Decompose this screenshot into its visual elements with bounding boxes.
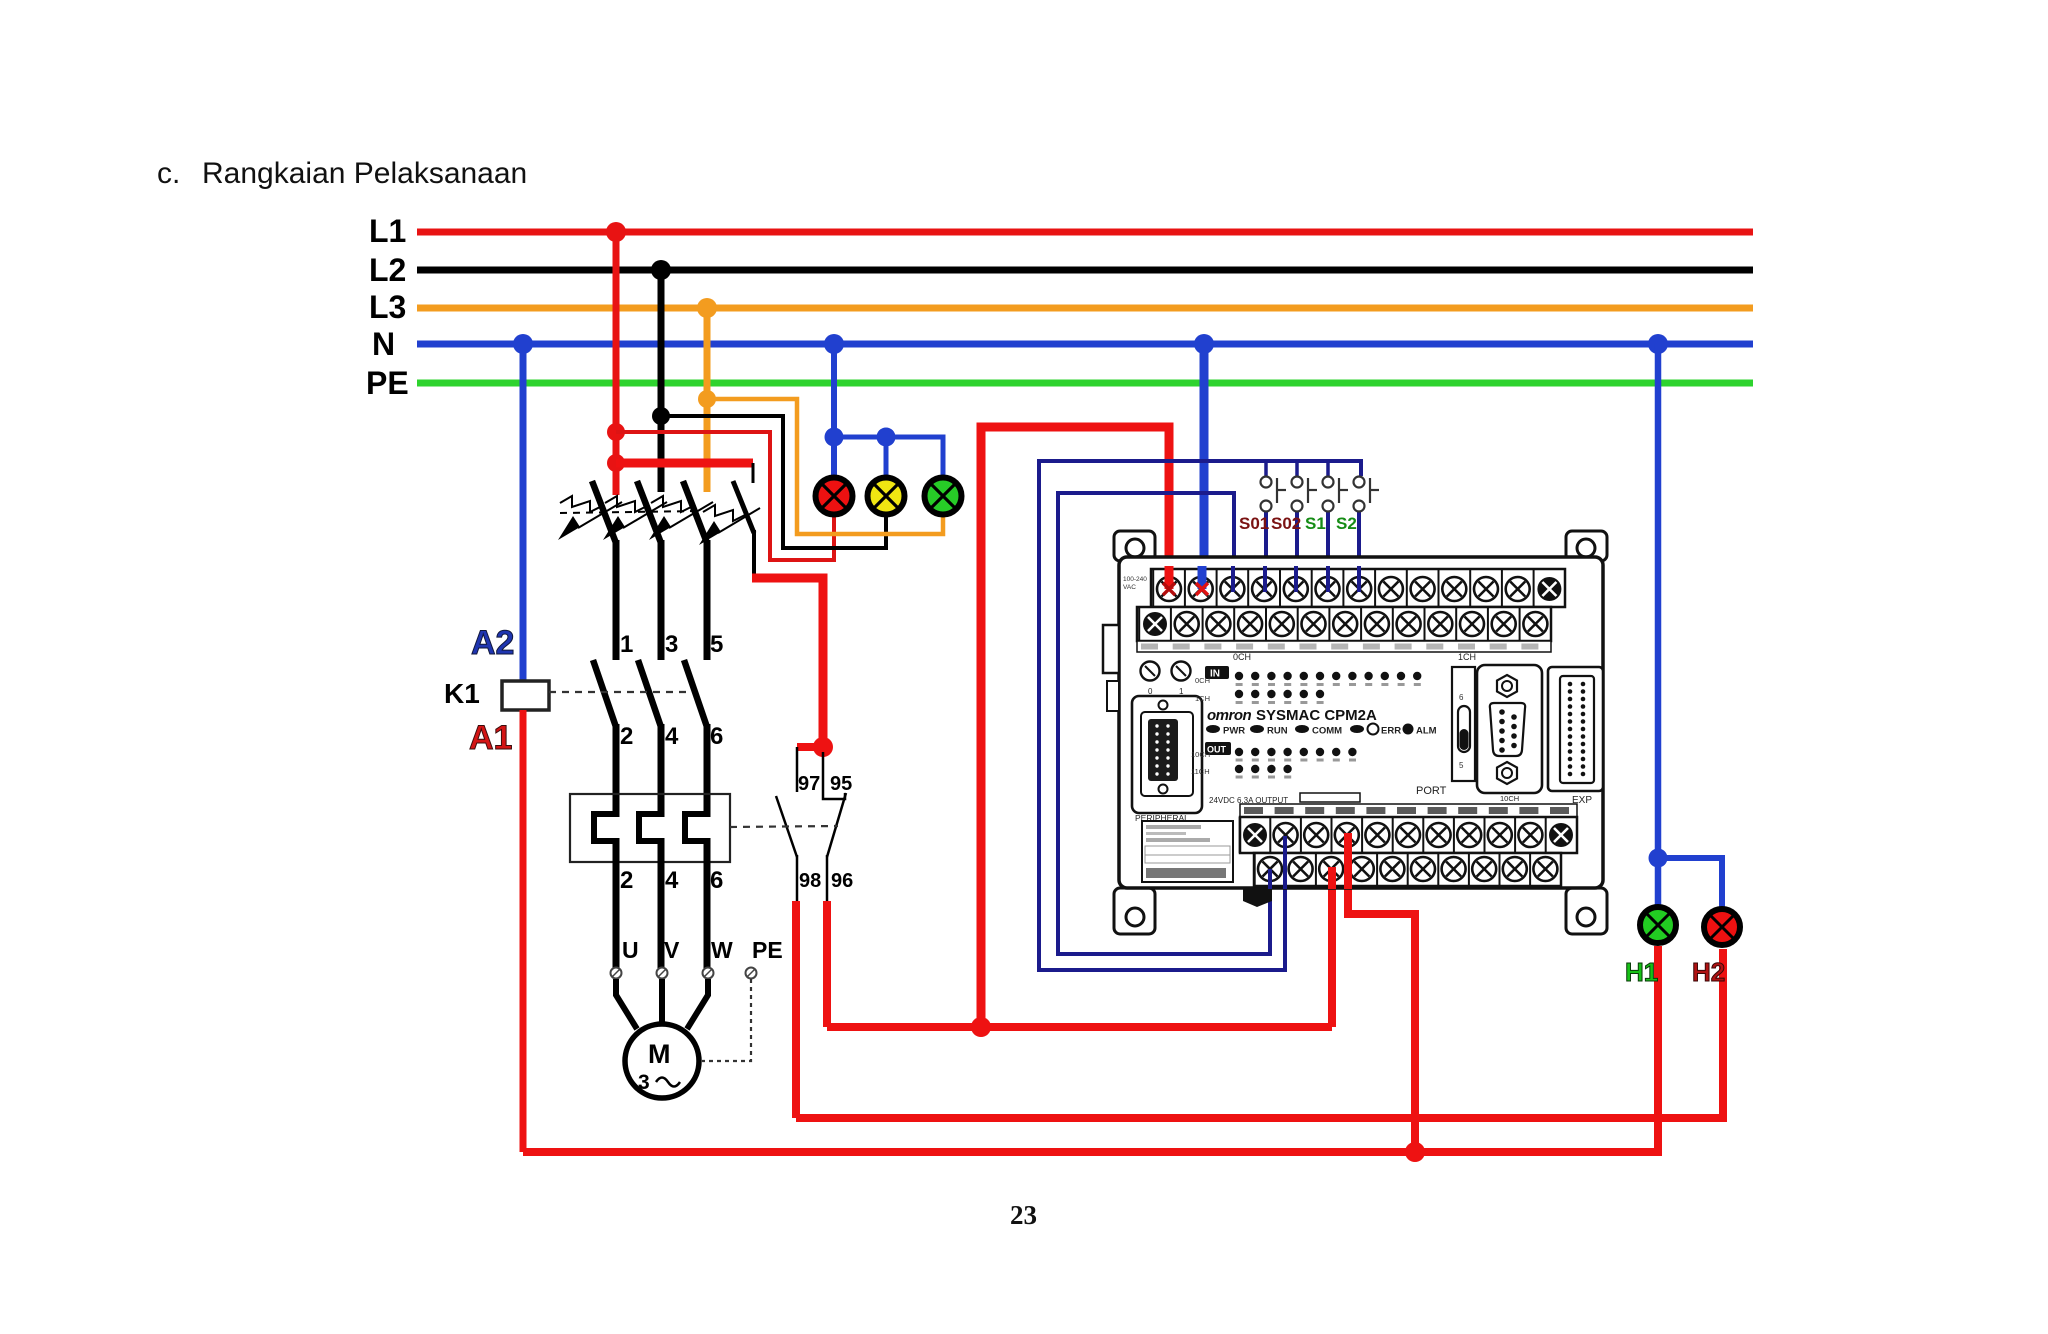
- label 97: [798, 773, 820, 795]
- label 5: [710, 631, 723, 658]
- svg-text:U: U: [622, 937, 639, 963]
- svg-text:S01: S01: [1239, 514, 1269, 533]
- PLC IN indicator block: [1195, 666, 1421, 704]
- PLC trim potentiometers: [1141, 662, 1191, 697]
- node red tap for control MCB at (616,463): [607, 454, 625, 472]
- wire thick red F2 out to overload aux: [752, 578, 823, 750]
- svg-text:4: 4: [665, 867, 679, 894]
- svg-text:COMM: COMM: [1312, 726, 1342, 737]
- label PERIPHERAL: [1135, 813, 1189, 823]
- svg-text:M: M: [648, 1039, 671, 1069]
- label omron SYSMAC CPM2A: [1207, 707, 1377, 724]
- svg-text:3: 3: [665, 631, 678, 658]
- svg-text:L1: L1: [369, 213, 406, 249]
- wire PE rail: [417, 380, 1753, 387]
- svg-text:A2: A2: [471, 624, 514, 662]
- overload relay F1 heater 1: [594, 814, 616, 968]
- svg-text:N: N: [372, 326, 395, 362]
- wire navy stub to S02 top: [1295, 461, 1299, 476]
- PLC bottom terminal label strip: [1209, 793, 1577, 817]
- rail label L3: [369, 289, 406, 325]
- label S01: [1239, 514, 1269, 533]
- label 6 bottom: [710, 867, 723, 894]
- wire navy outer loop (24V common to switches): [1039, 461, 1361, 970]
- wire red PLC output to jog right: [1348, 835, 1415, 1152]
- label V: [664, 937, 680, 963]
- overload aux contact 97-98 (NO): [776, 747, 797, 901]
- wire navy S01 bottom to PLC input: [1264, 511, 1268, 590]
- PLC peripheral port connector: [1132, 696, 1202, 813]
- contactor K1 pole 2: [638, 660, 661, 817]
- node blue junction at (834,437): [825, 428, 844, 447]
- overload relay F1 heater 2: [639, 814, 661, 968]
- wire N drop to K1 coil A2: [520, 344, 527, 682]
- PLC rating info box: [1142, 821, 1233, 882]
- label U: [622, 937, 639, 963]
- node blue junction at (886,437): [877, 428, 896, 447]
- svg-text:23: 23: [1010, 1200, 1037, 1230]
- node N junction at x1204: [1194, 334, 1214, 354]
- contactor K1 coil: [502, 681, 549, 710]
- wire thick red control feed L1 to MCB F2: [616, 459, 753, 468]
- overload relay F1 heater 3: [685, 814, 707, 968]
- wire L3 rail: [417, 305, 1753, 312]
- label A2: [471, 624, 514, 662]
- wire navy stub to S01 top: [1264, 461, 1268, 476]
- overload aux contact 95-96 (NC): [823, 752, 846, 901]
- PLC comm switch: [1452, 667, 1475, 781]
- label 6 top: [710, 723, 723, 750]
- wire red stub to 97: [797, 743, 823, 751]
- terminal W: [703, 968, 714, 979]
- svg-text:96: 96: [831, 870, 853, 892]
- wire red termination at bottom COM terminal row2: [1328, 867, 1336, 889]
- wire N drop to lamp bus: [831, 344, 837, 478]
- wire navy S1 termination: [1326, 566, 1330, 592]
- rail label PE: [366, 365, 409, 401]
- svg-text:VAC: VAC: [1123, 584, 1136, 591]
- svg-text:c.: c.: [157, 157, 180, 190]
- wire thick red termination at PLC terminal 1: [1163, 566, 1175, 595]
- wire navy S2 bottom to PLC input: [1357, 511, 1361, 590]
- node black tap at (661,416): [652, 407, 670, 425]
- svg-text:K1: K1: [444, 678, 480, 709]
- wire blue branch to H2: [1658, 858, 1722, 907]
- PLC RS-232C DB9 port: [1477, 665, 1542, 793]
- node L1 junction at x616: [606, 222, 626, 242]
- wire motor lead V: [659, 979, 665, 1023]
- lamp red pilot: [816, 478, 853, 515]
- svg-text:6: 6: [710, 723, 723, 750]
- svg-text:0: 0: [1148, 687, 1153, 696]
- svg-text:5: 5: [1459, 761, 1464, 770]
- svg-text:6: 6: [710, 867, 723, 894]
- wire red 98 down to bottom bus 2: [792, 901, 800, 1118]
- wire L3 drop: [704, 308, 711, 492]
- PLC top terminal strip row 1: [1151, 569, 1565, 607]
- svg-text:PWR: PWR: [1223, 726, 1245, 737]
- PLC DIN rail clip: [1243, 889, 1272, 907]
- node red tap for pilot lamp at (616,432): [607, 423, 625, 441]
- svg-text:V: V: [664, 937, 680, 963]
- wire thick red lamp-circuit feed to PLC: [981, 427, 1169, 1027]
- rail label L1: [369, 213, 406, 249]
- PLC bottom terminal strip row 1: [1240, 817, 1577, 853]
- svg-text:W: W: [711, 937, 733, 963]
- wire thin red from L1 tap to red lamp: [616, 432, 834, 560]
- svg-text:0CH: 0CH: [1195, 676, 1210, 685]
- svg-text:5: 5: [710, 631, 723, 658]
- rail label L2: [369, 252, 406, 288]
- svg-text:100-240: 100-240: [1123, 576, 1147, 583]
- wire navy S02 bottom to PLC input: [1295, 511, 1299, 590]
- node L2 junction at x661: [651, 260, 671, 280]
- PLC OUT indicator block: [1191, 742, 1357, 779]
- svg-text:95: 95: [830, 773, 852, 795]
- circuit breaker Q1 pole 2: [603, 481, 667, 660]
- circuit breaker Q1 pole 3: [649, 481, 713, 660]
- svg-text:6: 6: [1459, 693, 1464, 702]
- wire navy S1 bottom to PLC input: [1326, 511, 1330, 590]
- svg-text:H1: H1: [1625, 957, 1658, 987]
- wire blue N drop to H lamps: [1655, 344, 1662, 905]
- label S02: [1271, 514, 1301, 533]
- label S2: [1336, 514, 1357, 533]
- wire red bottom bus 2 (98 to H2): [796, 949, 1723, 1118]
- circuit breaker F2 single pole: [699, 463, 760, 578]
- svg-text:3: 3: [638, 1071, 650, 1094]
- label S1: [1305, 514, 1326, 533]
- label 4 bottom: [665, 867, 679, 894]
- svg-text:98: 98: [799, 870, 821, 892]
- svg-text:H2: H2: [1692, 957, 1725, 987]
- wire navy S01 termination: [1263, 566, 1267, 592]
- svg-text:S02: S02: [1271, 514, 1301, 533]
- svg-text:SYSMAC CPM2A: SYSMAC CPM2A: [1256, 707, 1377, 724]
- svg-text:A1: A1: [469, 719, 512, 757]
- PLC U1 body: [1103, 557, 1603, 888]
- node N junction at x834: [824, 334, 844, 354]
- label PE motor: [752, 937, 783, 963]
- wire N rail: [417, 341, 1753, 348]
- circuit breaker Q1 mechanical link (dashed): [560, 511, 700, 513]
- node red junction at (823,747): [813, 737, 833, 757]
- label A1: [469, 719, 512, 757]
- contactor K1 pole 1: [593, 660, 616, 817]
- svg-text:11CH: 11CH: [1191, 767, 1210, 776]
- wire L1 rail: [417, 229, 1753, 236]
- lamp H2 red: [1704, 909, 1740, 945]
- svg-text:0CH: 0CH: [1233, 652, 1251, 662]
- label PORT: [1416, 785, 1447, 797]
- node N junction at x1658: [1648, 334, 1668, 354]
- label 1: [620, 631, 633, 658]
- svg-text:PORT: PORT: [1416, 785, 1447, 797]
- wire navy termination at bottom output terminal row2: [1268, 869, 1272, 889]
- wire dashed coil linkage: [549, 691, 691, 693]
- node blue junction at (1658,858): [1649, 849, 1668, 868]
- svg-text:10CH: 10CH: [1500, 794, 1519, 803]
- svg-text:omron: omron: [1207, 707, 1252, 724]
- rail label N: [372, 326, 395, 362]
- wire navy S2 termination: [1357, 566, 1361, 592]
- title text: [157, 157, 527, 190]
- svg-text:97: 97: [798, 773, 820, 795]
- lamp green pilot: [925, 478, 962, 515]
- PLC top terminal label strip: [1123, 576, 1551, 662]
- node red junction at (1415,1152): [1405, 1142, 1425, 1162]
- wire thin orange from L3 tap to green lamp: [707, 399, 943, 534]
- motor M1: [625, 1024, 699, 1098]
- wire red termination at bottom output terminal row1: [1344, 833, 1352, 889]
- contactor K1 pole 3: [684, 660, 707, 817]
- wire blue lamp bus: [834, 437, 943, 478]
- label K1: [444, 678, 480, 709]
- wire navy stub to S1 top: [1326, 461, 1330, 476]
- wire L1 drop: [613, 232, 620, 492]
- PLC status LEDs PWR RUN COMM ERR ALM: [1206, 724, 1437, 737]
- wire red K1 coil A1 down to bottom rail: [520, 710, 527, 1152]
- svg-text:IN: IN: [1210, 669, 1220, 680]
- label 2 top: [620, 723, 633, 750]
- wire red 96 down to bus 1: [823, 901, 831, 1027]
- node N junction at x523: [513, 334, 533, 354]
- wire motor lead U: [616, 979, 637, 1029]
- svg-text:L3: L3: [369, 289, 406, 325]
- label 95: [830, 773, 852, 795]
- terminal PE: [746, 968, 757, 979]
- PLC top terminal strip row 2: [1137, 607, 1551, 641]
- svg-text:L2: L2: [369, 252, 406, 288]
- PLC bottom terminal strip row 2: [1254, 853, 1561, 886]
- svg-text:ERR: ERR: [1381, 726, 1401, 737]
- node L3 junction at x707: [697, 298, 717, 318]
- label 2 bottom: [620, 867, 633, 894]
- wire thick blue termination at PLC terminal 2: [1196, 566, 1208, 595]
- label H1: [1625, 957, 1658, 987]
- switch S1: [1323, 477, 1349, 512]
- svg-text:1CH: 1CH: [1195, 694, 1210, 703]
- lamp yellow pilot: [868, 478, 905, 515]
- wire red PLC output down to bus1: [1328, 869, 1336, 1027]
- svg-text:2: 2: [620, 867, 633, 894]
- svg-text:Rangkaian Pelaksanaan: Rangkaian Pelaksanaan: [202, 157, 527, 190]
- label 4 top: [665, 723, 679, 750]
- terminal U: [611, 968, 622, 979]
- wire navy COM termination at PLC terminal 3: [1231, 566, 1235, 592]
- label 3: [665, 631, 678, 658]
- svg-text:1: 1: [620, 631, 633, 658]
- terminal V: [657, 968, 668, 979]
- svg-text:S2: S2: [1336, 514, 1357, 533]
- overload relay F1 box: [570, 794, 730, 862]
- svg-text:1: 1: [1179, 687, 1184, 696]
- wire red bottom bus 1 (96 to PLC COM): [827, 1023, 1332, 1031]
- wire navy inner loop (COM): [1058, 493, 1270, 954]
- page number 23: [1010, 1200, 1037, 1230]
- wire dashed overload trip link: [730, 826, 838, 827]
- svg-text:10CH: 10CH: [1191, 750, 1210, 759]
- svg-text:PE: PE: [366, 365, 409, 401]
- svg-text:4: 4: [665, 723, 679, 750]
- svg-text:RUN: RUN: [1267, 726, 1288, 737]
- node red junction at (981,1027): [971, 1017, 991, 1037]
- node orange tap at (707,399): [698, 390, 716, 408]
- wire navy termination at bottom output terminal row1: [1283, 836, 1287, 889]
- circuit breaker Q1 pole 1: [558, 481, 622, 660]
- label 98: [799, 870, 821, 892]
- wire L2 drop: [658, 270, 665, 492]
- svg-text:ALM: ALM: [1416, 726, 1437, 737]
- svg-text:1CH: 1CH: [1458, 652, 1476, 662]
- wire motor lead W: [687, 979, 708, 1029]
- switch S2: [1354, 477, 1380, 512]
- svg-text:PE: PE: [752, 937, 783, 963]
- PLC expansion connector EXP: [1548, 667, 1603, 806]
- label W: [711, 937, 733, 963]
- svg-text:S1: S1: [1305, 514, 1326, 533]
- label 96: [831, 870, 853, 892]
- wire thick blue N to PLC: [1200, 344, 1209, 592]
- lamp H1 green: [1640, 907, 1676, 943]
- wire PE dashed to motor: [702, 979, 751, 1061]
- wire L2 rail: [417, 267, 1753, 274]
- switch S02: [1292, 477, 1318, 512]
- label H2: [1692, 957, 1725, 987]
- wire thin black from L2 tap to yellow lamp: [661, 416, 886, 548]
- wire navy S02 termination: [1294, 566, 1298, 592]
- svg-text:2: 2: [620, 723, 633, 750]
- switch S01: [1261, 477, 1287, 512]
- PLC U1 Omron SYSMAC CPM2A : mounting ears: [1114, 531, 1607, 934]
- wire red bottom bus 3 (A1 to H1): [523, 946, 1658, 1152]
